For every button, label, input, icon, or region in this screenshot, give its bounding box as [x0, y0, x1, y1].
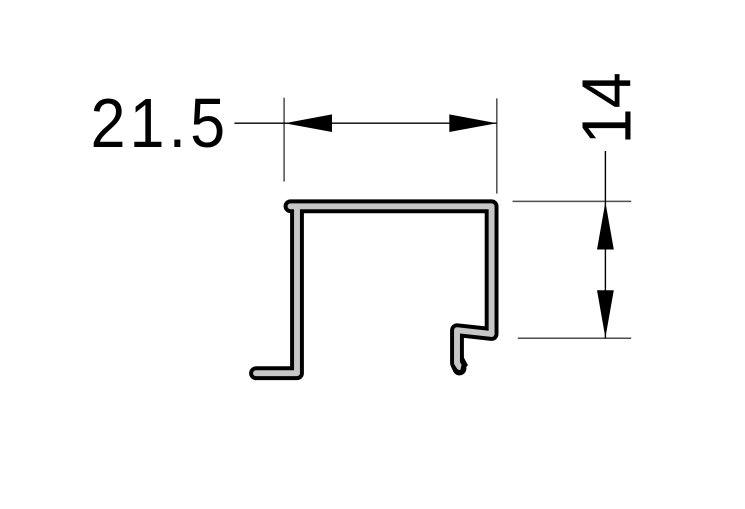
svg-text:21.5: 21.5: [90, 85, 225, 163]
svg-text:14: 14: [568, 72, 646, 144]
